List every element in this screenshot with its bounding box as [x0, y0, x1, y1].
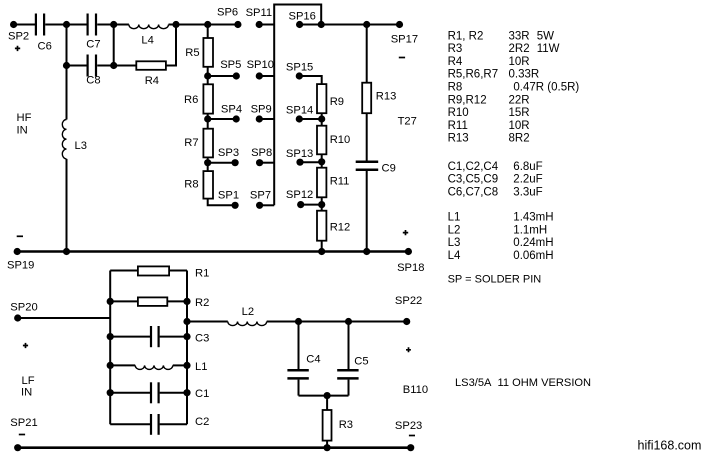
svg-text:11W: 11W [537, 43, 560, 55]
svg-text:R11: R11 [330, 176, 350, 188]
svg-text:B110: B110 [403, 384, 428, 396]
svg-text:8R2: 8R2 [509, 133, 530, 145]
svg-text:C3,C5,C9: C3,C5,C9 [448, 174, 499, 186]
svg-text:R3: R3 [339, 419, 353, 431]
svg-text:SP6: SP6 [217, 6, 238, 18]
svg-text:2R2: 2R2 [509, 43, 530, 55]
svg-text:L1: L1 [448, 212, 461, 224]
svg-text:C7: C7 [86, 39, 100, 51]
svg-text:R7: R7 [184, 137, 198, 149]
svg-text:R13: R13 [448, 133, 469, 145]
svg-text:1.1mH: 1.1mH [513, 224, 547, 236]
svg-text:R9: R9 [330, 96, 344, 108]
svg-text:SP9: SP9 [251, 104, 272, 116]
svg-text:R8: R8 [184, 179, 198, 191]
svg-text:R13: R13 [376, 91, 397, 103]
svg-text:10R: 10R [509, 56, 530, 68]
svg-text:C1: C1 [195, 388, 209, 400]
svg-text:SP5: SP5 [220, 59, 241, 71]
svg-text:IN: IN [17, 125, 28, 137]
svg-text:C6: C6 [38, 41, 52, 53]
svg-text:SP19: SP19 [7, 260, 34, 272]
svg-text:R1, R2: R1, R2 [448, 30, 484, 42]
svg-text:10R: 10R [509, 120, 530, 132]
svg-text:C4: C4 [306, 354, 320, 366]
svg-text:L4: L4 [141, 35, 153, 47]
svg-text:HF: HF [17, 112, 32, 124]
svg-text:L3: L3 [448, 237, 461, 249]
svg-text:T27: T27 [398, 116, 417, 128]
svg-text:L1: L1 [195, 361, 207, 373]
svg-text:SP8: SP8 [251, 147, 272, 159]
svg-text:L2: L2 [448, 224, 461, 236]
svg-text:R10: R10 [448, 107, 469, 119]
svg-text:C2: C2 [195, 416, 209, 428]
svg-text:R9,R12: R9,R12 [448, 94, 487, 106]
svg-text:R12: R12 [330, 222, 351, 234]
svg-text:SP17: SP17 [391, 33, 418, 45]
svg-text:SP10: SP10 [247, 59, 274, 71]
svg-text:SP20: SP20 [10, 301, 37, 313]
svg-text:C6,C7,C8: C6,C7,C8 [448, 187, 499, 199]
svg-text:R5,R6,R7: R5,R6,R7 [448, 69, 499, 81]
svg-text:R5: R5 [185, 47, 199, 59]
svg-text:R11: R11 [448, 120, 468, 132]
svg-text:SP23: SP23 [395, 420, 422, 432]
svg-text:R2: R2 [195, 297, 209, 309]
svg-text:R10: R10 [330, 134, 351, 146]
svg-text:R3: R3 [448, 43, 463, 55]
svg-text:15R: 15R [509, 107, 530, 119]
svg-text:6.8uF: 6.8uF [513, 161, 542, 173]
svg-text:0.33R: 0.33R [509, 69, 540, 81]
svg-text:SP22: SP22 [395, 295, 422, 307]
svg-text:L4: L4 [448, 250, 461, 262]
svg-text:SP15: SP15 [286, 62, 313, 74]
svg-text:C3: C3 [195, 333, 209, 345]
svg-text:SP12: SP12 [286, 189, 313, 201]
svg-text:22R: 22R [509, 94, 530, 106]
svg-text:3.3uF: 3.3uF [513, 187, 542, 199]
svg-text:R4: R4 [448, 56, 463, 68]
svg-text:SP16: SP16 [289, 10, 316, 22]
svg-text:C5: C5 [354, 356, 368, 368]
svg-text:L3: L3 [75, 140, 87, 152]
svg-text:R6: R6 [184, 94, 198, 106]
svg-text:0.06mH: 0.06mH [513, 250, 553, 262]
svg-text:C1,C2,C4: C1,C2,C4 [448, 161, 499, 173]
svg-text:1.43mH: 1.43mH [513, 212, 553, 224]
svg-text:SP3: SP3 [218, 147, 239, 159]
svg-text:SP18: SP18 [397, 262, 424, 274]
svg-text:2.2uF: 2.2uF [513, 174, 542, 186]
svg-text:LS3/5A 11 OHM VERSION: LS3/5A 11 OHM VERSION [455, 377, 591, 389]
svg-text:IN: IN [21, 387, 32, 399]
svg-text:R4: R4 [145, 75, 159, 87]
svg-text:R1: R1 [195, 268, 209, 280]
svg-text:5W: 5W [537, 30, 554, 42]
svg-text:SP14: SP14 [286, 105, 313, 117]
svg-text:SP11: SP11 [246, 7, 273, 19]
svg-text:33R: 33R [509, 30, 530, 42]
svg-text:LF: LF [22, 375, 35, 387]
svg-text:SP7: SP7 [250, 190, 271, 202]
svg-text:SP13: SP13 [286, 148, 313, 160]
svg-text:SP21: SP21 [10, 417, 37, 429]
svg-text:C8: C8 [86, 75, 100, 87]
svg-text:0.47R (0.5R): 0.47R (0.5R) [513, 82, 579, 94]
svg-text:SP1: SP1 [218, 190, 239, 202]
svg-text:0.24mH: 0.24mH [513, 237, 553, 249]
svg-text:L2: L2 [242, 306, 254, 318]
svg-text:SP = SOLDER PIN: SP = SOLDER PIN [448, 273, 542, 285]
svg-text:SP2: SP2 [8, 31, 29, 43]
svg-text:C9: C9 [382, 162, 396, 174]
svg-text:R8: R8 [448, 82, 463, 94]
svg-text:hifi168.com: hifi168.com [638, 439, 702, 453]
svg-text:SP4: SP4 [221, 104, 242, 116]
